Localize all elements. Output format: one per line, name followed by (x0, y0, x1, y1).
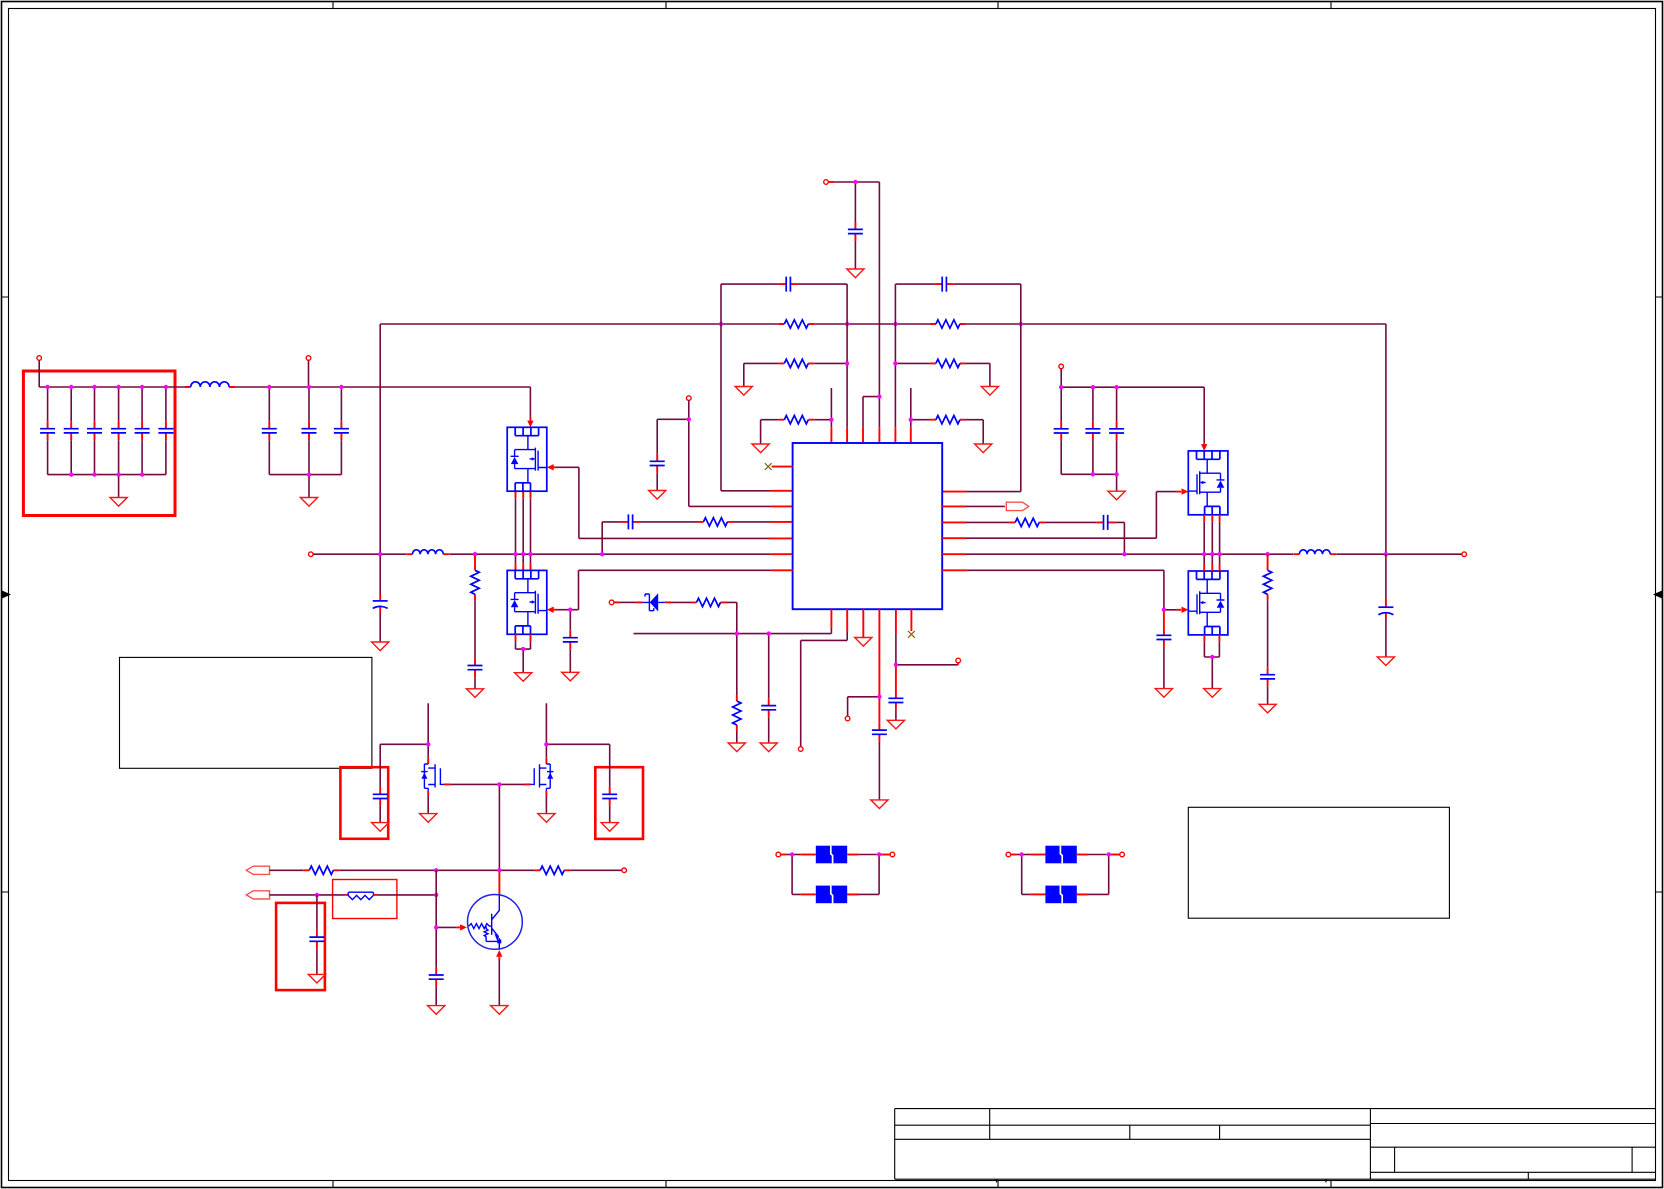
ground C29 (601, 823, 618, 832)
wire x895 to terminal right (896, 664, 958, 666)
junction dot M2 source (521, 647, 525, 651)
junction dots main bus right (1122, 552, 1388, 556)
red highlight box C near M5 (340, 767, 388, 839)
wire x895 down (895, 634, 897, 665)
wire M2 gate cap branch (569, 610, 571, 673)
wire C20 to ground (895, 710, 897, 720)
wire M1-M2 column x515 (515, 491, 517, 570)
wire fuse left bottom loop (792, 855, 879, 895)
terminal J4 left VDD (687, 396, 692, 401)
resistor R13 (303, 866, 339, 874)
pin arrow Q1 emitter (496, 950, 502, 957)
ground cap bank (110, 498, 127, 507)
annotation box right (black) (1188, 807, 1449, 918)
junction dot base (434, 925, 438, 929)
fuse F1 (816, 846, 847, 864)
capacitor C15 (468, 658, 483, 677)
ground R4 (752, 444, 769, 453)
inductor L2 (407, 550, 450, 554)
pin stub J15 (1011, 854, 1017, 856)
pin stub F1 left (801, 854, 816, 856)
wire pin2 to port (966, 505, 1005, 507)
title block right row line 3 (1370, 1171, 1655, 1173)
pin stub F2 left (801, 893, 816, 895)
capacitor C7 (268, 387, 270, 475)
ground Q1 emitter (491, 1006, 508, 1015)
pin M6 drain (545, 758, 547, 763)
capacitor C25 (1116, 387, 1118, 474)
pin IC bottom x895 (895, 609, 897, 634)
wire R10 branch down (736, 634, 738, 695)
ground C27 (1377, 657, 1394, 666)
wire C18 branch down (768, 634, 770, 743)
pin arrow M3 gate (1176, 491, 1181, 493)
pin IC right pin3 (942, 521, 966, 523)
pin stub RT1 right (373, 894, 377, 896)
wire pin5 to M1 gate (557, 467, 770, 538)
ground C22 (1155, 689, 1172, 698)
title block right row line 2 (1370, 1146, 1655, 1148)
wire M4 gate cap branch (1163, 610, 1165, 628)
pin stub F3 right (1077, 854, 1088, 856)
wire M3-M4 column x1219 (1219, 515, 1221, 571)
terminal J9 (956, 658, 961, 663)
junction dot M4 source (1210, 655, 1214, 659)
capacitor C29 in red box (602, 787, 617, 806)
pin stub J6 (614, 601, 620, 603)
pin IC left pin3 (771, 505, 793, 507)
junction dots port B line (315, 893, 439, 897)
pin M5 source (427, 791, 429, 796)
pin IC right pin2 (942, 505, 966, 507)
wire pin x831 to net B (830, 628, 832, 634)
resistor R11 boot (1009, 518, 1045, 526)
pin M5 gate (444, 783, 450, 785)
capacitor C18 (761, 698, 776, 717)
capacitor C9 (340, 387, 342, 475)
wire R5 right to ground (966, 363, 990, 386)
junction dots input bus (45, 385, 343, 477)
wire R4 right to pin x831 (814, 388, 831, 427)
wire M5 source to ground (427, 796, 429, 814)
wire input bus y387 mid (235, 386, 530, 388)
pin stub J3 (828, 181, 834, 183)
wire C22 to ground (1163, 647, 1165, 689)
resistor R1 top left loop (778, 320, 814, 328)
title block sub-box divider x1394 (1394, 1147, 1396, 1172)
wire R10 to ground (736, 731, 738, 743)
wire D1 to R9 (671, 601, 691, 603)
frame center arrow right (1653, 591, 1662, 599)
terminal J12 (622, 868, 627, 873)
wire fuse right bottom loop (1022, 855, 1109, 895)
ground right trio (1108, 491, 1125, 500)
capacitor C13 (650, 454, 665, 473)
pin IC top x879 (878, 427, 880, 443)
wire R12 to C26 (1267, 600, 1269, 704)
wire x1385 below bus (1385, 554, 1387, 657)
wire left loop top y284 (721, 283, 847, 285)
terminal J11 right VDD (1059, 364, 1064, 369)
ground C31 (428, 1006, 445, 1015)
pin stub RT1 left (345, 894, 348, 896)
IC U1 (793, 443, 943, 609)
wire top cap branch (854, 182, 856, 269)
terminal J2 input (306, 356, 311, 361)
wire J1 to bus (38, 360, 40, 387)
title block bottom tick x1325 (1325, 1179, 1327, 1182)
pin IC top x847 (846, 427, 848, 443)
title block sub-box divider x1632 (1631, 1147, 1633, 1172)
resistor R2 top right loop (930, 320, 966, 328)
wire VDD branch left to C13 (657, 419, 689, 490)
wire base divider vertical x436 (435, 870, 437, 1005)
wire port B line (270, 894, 346, 896)
title block divider x989 (989, 1109, 991, 1140)
wire right loop top y284 (895, 283, 1020, 285)
resistor R4 left row3 (778, 416, 814, 424)
wire R7 to C14 (640, 521, 697, 523)
ground C17 (562, 672, 579, 681)
wire port A line (270, 869, 304, 871)
pin arrow M4 gate (1176, 609, 1181, 611)
junction dot M2 gate (568, 608, 572, 612)
mosfet M4 package (1188, 571, 1228, 635)
resistor R5 right row2 (930, 359, 966, 367)
junction dots port A line (434, 868, 502, 872)
ground M4 source (1204, 689, 1221, 698)
capacitor C4 (118, 387, 120, 475)
wire C21 to bus drop (1115, 522, 1124, 554)
wire M6 source to ground (545, 796, 547, 814)
wire Q1 emitter to ground (498, 960, 500, 1006)
ground R6 (975, 444, 992, 453)
wire main bus left to IC (450, 553, 771, 555)
pin stub F3 left (1030, 854, 1045, 856)
wire J6 to D1 (620, 601, 636, 603)
capacitor C10 left loop (779, 277, 798, 292)
junction dot VDD (687, 417, 691, 421)
pin arrow into M1 drain top (529, 417, 531, 421)
wire pin3 to R11 (966, 521, 1009, 523)
wire M4 source pins join (1204, 635, 1219, 641)
title block outline (895, 1109, 1656, 1180)
junction dots fuse left (790, 852, 881, 856)
wire right loop vertical x895 (894, 284, 896, 427)
ground C12 (847, 269, 864, 278)
pin IC left pin7 (771, 569, 793, 571)
wire C7-C9 bottom bus (269, 474, 341, 476)
wire right cap trio bottom bus (1061, 473, 1116, 475)
pin IC top x831 (830, 427, 832, 443)
wire M3 top feed (1203, 387, 1205, 443)
capacitor C21 boot (1096, 515, 1115, 530)
terminal J10 right switch node (1462, 552, 1467, 557)
red thin box thermistor (333, 880, 397, 919)
wire M2 source pins join (516, 634, 531, 641)
junction dot gate link (497, 782, 501, 786)
junction dots main bus left (378, 552, 604, 556)
capacitor C8 (308, 387, 310, 475)
pin stub D1 right (665, 601, 671, 603)
pin stub J14 (879, 854, 890, 856)
wire VDD down to IC pin3 (689, 419, 771, 506)
wire gate link down to port line (498, 784, 500, 870)
junction dots right loop (893, 361, 913, 422)
wire M2 gate rise to IC pin7 (570, 570, 770, 609)
pin IC bottom x911 no-connect (910, 609, 912, 631)
terminal J1 input (37, 356, 42, 361)
pin IC left pin4 (771, 521, 793, 523)
pin Q1 collector (498, 872, 500, 895)
ground C7-C9 (300, 498, 317, 507)
wire main bus right (966, 553, 1293, 555)
junction dot M5 drain (426, 742, 430, 746)
pin IC bottom x847 (846, 609, 848, 632)
inductor L1 (185, 382, 235, 387)
pin stub J13 (781, 854, 787, 856)
wire M3-M4 column x1212 (1211, 515, 1213, 571)
capacitor C3 (94, 387, 96, 475)
annotation box left (black) (120, 657, 372, 768)
wire R6 left to pin x910 (911, 388, 930, 427)
resistor R8 snubber (471, 564, 479, 600)
title block row line A (895, 1124, 1371, 1126)
title block main divider x1370 (1369, 1109, 1371, 1180)
wire C14 to bus drop (602, 522, 621, 554)
pin IC left pin1 no-connect (772, 466, 793, 468)
ground C26 (1259, 704, 1276, 713)
mosfet M1 package (507, 427, 547, 491)
red highlight box C port net (276, 903, 325, 990)
wire jog to pin x863 (863, 397, 879, 428)
ground C15 (466, 689, 483, 698)
capacitor C5 (141, 387, 143, 475)
ground IC pin x863 (855, 638, 872, 647)
ground C19 (871, 800, 888, 809)
zener diode D1 (642, 593, 665, 611)
mosfet M2 package (507, 570, 547, 634)
capacitor C1 (47, 387, 49, 475)
pin stub F1 right (847, 854, 858, 856)
ground C16 (372, 642, 389, 651)
junction dots VIN rail (719, 322, 1023, 326)
wire pin x847 to terminal below (801, 632, 848, 747)
capacitor C14 comp (621, 514, 640, 529)
fuse F4 (1045, 886, 1076, 904)
pin IC top x863 (862, 427, 864, 443)
wire R6 right to ground (966, 420, 983, 444)
wire R4 left to ground (761, 420, 779, 444)
capacitor C17 M2 gate (563, 630, 578, 649)
junction dots fuse right (1020, 852, 1111, 856)
mosfet M5 (421, 763, 444, 791)
junction dot x895 (894, 663, 898, 667)
wire R11 to C21 (1045, 521, 1096, 523)
fuse F3 (1045, 846, 1076, 864)
wire J2 to bus (308, 360, 310, 387)
pin stub F4 left (1030, 893, 1045, 895)
ground M2 source (515, 673, 532, 682)
frame tick marks left (2, 297, 9, 892)
wire J11 down (1060, 369, 1062, 388)
title block divider x1129 (1129, 1125, 1131, 1139)
capacitor C2 (70, 387, 72, 475)
terminal J6 zener input (609, 600, 614, 605)
wire M2 gate to dot (557, 609, 571, 611)
wire main bus left (313, 553, 406, 555)
title block row line B (895, 1138, 1371, 1140)
wire VIN rail vertical x380 (379, 324, 381, 554)
resistor R10 to ground (733, 695, 741, 731)
terminal J3 top VCC (824, 180, 829, 185)
wire M6 drain feed x546 (545, 703, 547, 757)
pin IC bottom x863 (862, 609, 864, 637)
capacitor C16 polarized (373, 594, 388, 613)
ground C20 (887, 720, 904, 729)
wire x475 branch (474, 554, 476, 564)
terminal J13 fuse left in (776, 852, 781, 857)
title block bottom tick x996 (996, 1179, 998, 1182)
capacitor C26 (1260, 667, 1275, 686)
wire F3 to dot (1088, 854, 1106, 856)
red highlight box C near M6 (595, 767, 643, 839)
terminal J14 fuse left out (890, 852, 895, 857)
title block divider x1219 (1219, 1125, 1221, 1139)
wire pin4 to R7 (733, 521, 770, 523)
capacitor C22 M4 gate (1156, 628, 1171, 647)
wire x1267 branch (1267, 554, 1269, 564)
pin stub J16 (1109, 854, 1120, 856)
pin IC bottom x879 long (878, 609, 880, 723)
pin stub J9 (957, 663, 959, 665)
pin arrow M2 gate (553, 609, 557, 611)
transistor Q1 digital npn (468, 895, 523, 950)
capacitor C11 right loop (935, 277, 954, 292)
resistor R12 snubber right (1263, 564, 1271, 600)
port arrow input B (246, 891, 269, 899)
pin M6 source (545, 791, 547, 796)
capacitor C12 top (848, 222, 863, 241)
terminal J7 (798, 747, 803, 752)
pin IC right pin6 (942, 569, 967, 571)
wire top VCC horizontal (834, 181, 879, 183)
capacitor C30 in red box (309, 930, 324, 949)
wire net B horizontal y633 (634, 633, 832, 635)
terminal J5 left switch node (309, 552, 314, 557)
capacitor C24 (1092, 387, 1094, 474)
pin IC bottom x831 (830, 609, 832, 628)
wire base branch (436, 926, 456, 928)
port arrow input A (246, 866, 269, 874)
resistor R14 (534, 866, 570, 874)
ground C18 (760, 743, 777, 752)
ground M5 (420, 814, 437, 823)
wire top VCC drop x879 (878, 182, 880, 427)
wire right cap trio top bus (1061, 386, 1204, 388)
resistor R7 comp (697, 518, 733, 526)
wire M3-M4 column x1204 (1203, 515, 1205, 571)
ground R10 (728, 743, 745, 752)
frame tick marks bottom (333, 1181, 1331, 1188)
pin IC right pin5 main bus (942, 553, 966, 555)
wire F1 to dot (858, 854, 876, 856)
wire main bus right end (1336, 553, 1461, 555)
pin arrow Q1 base (456, 926, 460, 928)
wire right loop right vertical x1020 to IC right pin1 (966, 284, 1021, 492)
pin IC left pin2 (771, 490, 793, 492)
wire x895 cap branch (895, 665, 897, 691)
junction dots right trio (1059, 385, 1119, 476)
wire J13 to F1 (787, 854, 801, 856)
terminal J16 fuse right out (1120, 852, 1125, 857)
mosfet M3 package (1188, 451, 1228, 515)
frame tick marks right (1656, 297, 1663, 892)
pin IC top x895 (894, 427, 896, 443)
wire box4 cap branch (546, 744, 609, 822)
ground C30 (308, 974, 325, 983)
resistor R3 left row2 (778, 359, 814, 367)
pin IC left pin6 (771, 553, 793, 555)
wire pin4 to M3 gate (966, 492, 1176, 539)
wire C19 to ground (878, 742, 880, 800)
junction dot M4 gate (1162, 608, 1166, 612)
wire input bus y387 left (39, 386, 185, 388)
wire box2 cap branch (380, 744, 428, 822)
wire J4 down (688, 400, 690, 419)
wire left loop right vertical x847 (846, 284, 848, 427)
wire VIN rail top y324 (380, 323, 1386, 325)
ground C28 (372, 823, 389, 832)
wire boot branch to terminal (848, 697, 880, 716)
wire left loop vertical x721 to IC pin2 (721, 284, 771, 491)
wire VIN rail right drop x1385 (1385, 324, 1387, 554)
pin M6 gate (525, 783, 531, 785)
wire gate link M5-M6 (450, 783, 524, 785)
wire M5 drain feed x428 (427, 703, 429, 757)
wire box3 cap branch (316, 895, 318, 975)
wire M1-M2 column x523 (522, 491, 524, 570)
port arrow output (1006, 502, 1029, 510)
wire R9 to corner down (727, 602, 737, 633)
capacitor C27 polarized (1378, 600, 1393, 619)
pin M5 drain (427, 758, 429, 763)
wire J15 to F3 (1017, 854, 1031, 856)
wire x380 below bus to C16 (379, 554, 381, 642)
terminal J15 fuse right in (1006, 852, 1011, 857)
terminal J8 (845, 716, 850, 721)
junction dots net B (735, 631, 771, 635)
frame tick marks top (333, 2, 1331, 9)
wire R3 right to x847 (814, 362, 847, 364)
wire cap bank ground stem (118, 475, 120, 498)
pin arrow M1 gate (553, 466, 557, 468)
wire right trio ground stem (1116, 474, 1118, 491)
capacitor C20 (888, 691, 903, 710)
thermistor RT1 (348, 892, 373, 899)
capacitor C19 (872, 723, 887, 742)
title block bottom divider x1528 (1527, 1172, 1529, 1179)
title block right row line 1 (1370, 1123, 1655, 1125)
wire pin6 to M4 gate (967, 570, 1176, 610)
wire RT1 to junction (377, 894, 436, 896)
resistor R6 right row3 (930, 416, 966, 424)
wire R8 to C15 (474, 600, 476, 689)
frame center arrow left (2, 591, 11, 599)
red highlight box input filter (23, 371, 175, 516)
junction dot x879 (877, 695, 881, 699)
x mark IC left pin1 (765, 463, 772, 470)
